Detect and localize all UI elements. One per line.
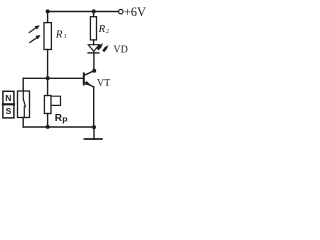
- svg-text:VD: VD: [113, 44, 127, 55]
- svg-text:+6V: +6V: [124, 5, 146, 19]
- svg-text:1: 1: [64, 34, 67, 40]
- svg-text:R: R: [98, 23, 106, 35]
- svg-text:N: N: [5, 93, 11, 103]
- svg-text:S: S: [6, 106, 12, 116]
- svg-text:VT: VT: [97, 78, 110, 89]
- svg-text:P: P: [62, 117, 68, 126]
- svg-text:R: R: [55, 28, 63, 40]
- svg-text:2: 2: [106, 29, 109, 35]
